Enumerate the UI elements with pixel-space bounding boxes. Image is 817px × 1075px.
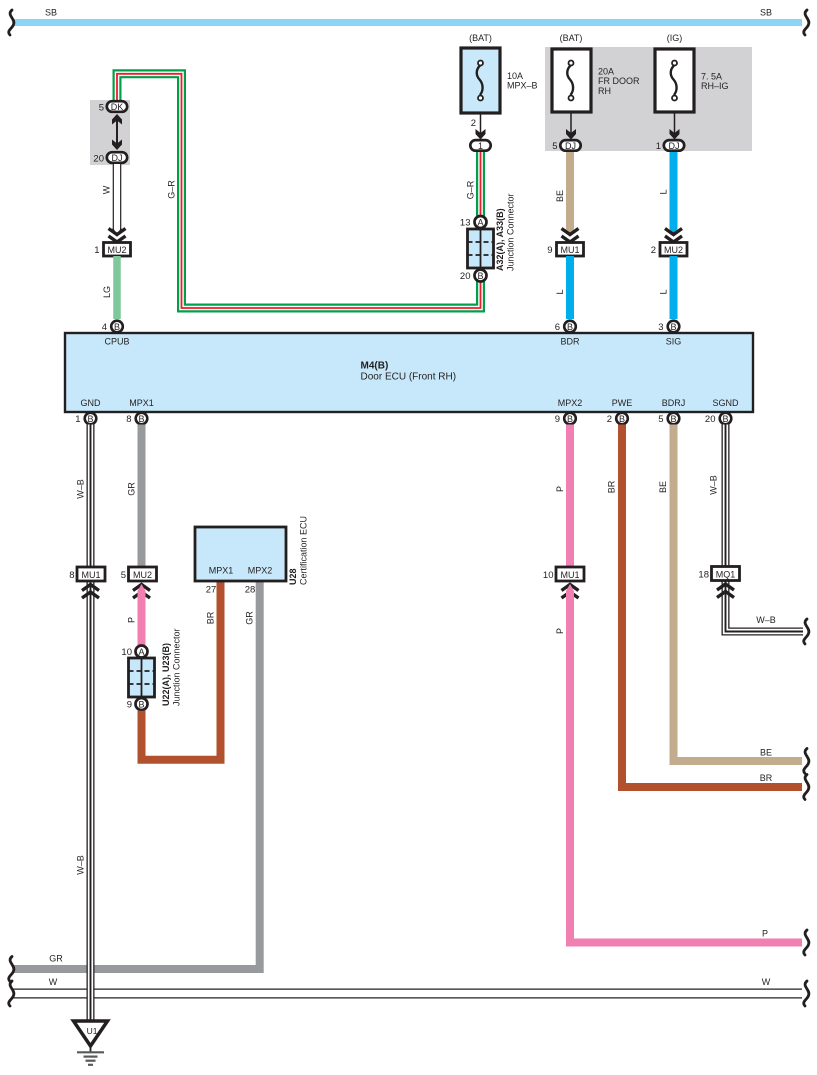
break BR right <box>804 775 809 800</box>
svg-text:20: 20 <box>93 154 104 165</box>
svg-text:W: W <box>102 185 112 194</box>
svg-text:SB: SB <box>45 8 57 18</box>
junction connector A32(A), A33(B) body <box>468 229 494 268</box>
svg-text:B: B <box>138 699 144 709</box>
svg-text:DJ: DJ <box>565 141 576 151</box>
svg-text:B: B <box>567 414 573 424</box>
svg-text:BE: BE <box>658 481 668 493</box>
break GR left <box>9 957 14 982</box>
svg-text:B: B <box>477 271 483 281</box>
arrow to DJ <box>670 129 680 140</box>
svg-text:W–B: W–B <box>76 479 86 499</box>
arrow to connector 1 <box>476 129 486 140</box>
fuse 7.5A RH-IG <box>655 49 694 112</box>
svg-text:5: 5 <box>552 141 557 152</box>
svg-text:28: 28 <box>245 585 256 596</box>
svg-text:B: B <box>722 414 728 424</box>
svg-text:GR: GR <box>245 611 255 625</box>
svg-text:P: P <box>555 628 565 634</box>
connector MU2 (1) <box>104 243 131 257</box>
svg-text:PWE: PWE <box>612 398 633 408</box>
svg-text:MPX–B: MPX–B <box>507 81 538 91</box>
svg-text:L: L <box>659 289 669 294</box>
svg-text:1: 1 <box>94 245 99 256</box>
pin BDR 6(B) <box>564 321 576 333</box>
svg-text:MPX2: MPX2 <box>248 566 273 576</box>
gray panel (fuse block BAT/IG) <box>545 47 752 151</box>
break W-B right <box>804 619 809 644</box>
svg-text:GR: GR <box>49 954 63 964</box>
wire W-B (SGND to right break) <box>726 425 804 632</box>
wire P (MU1 to right break) <box>566 584 574 591</box>
break SB left <box>9 10 14 35</box>
wire SB <box>13 19 802 26</box>
wire W-B (GND to ground) <box>87 425 95 1022</box>
svg-text:6: 6 <box>555 322 560 333</box>
svg-text:5: 5 <box>121 570 126 581</box>
svg-text:SB: SB <box>760 8 772 18</box>
wire fuse2 to DJ <box>570 112 572 134</box>
svg-text:18: 18 <box>698 570 709 581</box>
svg-text:MPX1: MPX1 <box>129 398 154 408</box>
svg-text:1: 1 <box>656 141 661 152</box>
svg-text:8: 8 <box>126 414 131 425</box>
connector MU2 (2) <box>660 243 687 257</box>
wire L (MU2 to SIG) <box>670 256 678 319</box>
svg-text:BDR: BDR <box>560 337 580 347</box>
svg-text:W: W <box>49 977 58 987</box>
svg-text:2: 2 <box>607 414 612 425</box>
svg-text:B: B <box>670 414 676 424</box>
connector MU1 (8) <box>77 567 105 581</box>
wire BE (BDRJ to right break) <box>674 425 803 762</box>
svg-text:BE: BE <box>760 748 772 758</box>
wire LG <box>113 256 121 319</box>
svg-text:BR: BR <box>607 480 617 493</box>
svg-text:DJ: DJ <box>669 141 680 151</box>
break W right <box>804 981 809 1006</box>
junction connector pin B (9) <box>136 698 148 710</box>
pin CPUB 4(B) <box>111 321 123 333</box>
svg-text:BDRJ: BDRJ <box>662 398 686 408</box>
svg-text:FR DOOR: FR DOOR <box>598 76 640 86</box>
svg-text:A: A <box>477 217 483 227</box>
svg-text:MU2: MU2 <box>664 245 683 255</box>
fuse 10A MPX-B <box>461 48 500 113</box>
wire fuse1 to connector 1 <box>480 113 482 134</box>
svg-text:U1: U1 <box>87 1026 98 1036</box>
svg-text:3: 3 <box>658 322 663 333</box>
svg-text:7. 5A: 7. 5A <box>701 71 722 81</box>
wire W-B over crossings (redraw) <box>87 950 95 1021</box>
svg-text:GND: GND <box>81 398 102 408</box>
svg-text:MPX1: MPX1 <box>209 566 234 576</box>
svg-text:4: 4 <box>102 322 107 333</box>
svg-text:U22(A), U23(B): U22(A), U23(B) <box>161 643 171 706</box>
wire GR (MPX1 to MU2) <box>138 425 146 568</box>
wire GR (U28 MPX2 down-left) <box>13 581 260 969</box>
wire fuse3 to DJ <box>674 112 676 134</box>
fuse 20A FR DOOR RH <box>552 49 591 112</box>
svg-text:DJ: DJ <box>112 153 123 163</box>
svg-text:Door ECU (Front RH): Door ECU (Front RH) <box>361 372 457 383</box>
svg-text:G–R: G–R <box>167 180 177 199</box>
connector MQ1 (18) <box>712 567 740 581</box>
connector oval DJ (5) <box>560 140 580 151</box>
svg-text:MU1: MU1 <box>81 570 100 580</box>
svg-text:GR: GR <box>127 482 137 496</box>
svg-text:B: B <box>87 414 93 424</box>
connector oval DK (5) <box>107 101 127 112</box>
svg-text:BR: BR <box>760 773 773 783</box>
svg-text:P: P <box>127 617 137 623</box>
svg-text:B: B <box>114 322 120 332</box>
svg-text:MU2: MU2 <box>107 245 126 255</box>
svg-text:G–R: G–R <box>466 180 476 199</box>
svg-text:M4(B): M4(B) <box>361 361 389 372</box>
svg-text:9: 9 <box>127 700 132 711</box>
wire BR (junction B to U28 MPX1) <box>142 581 221 760</box>
svg-text:MQ1: MQ1 <box>716 569 736 579</box>
svg-text:SIG: SIG <box>666 337 682 347</box>
gray panel (DK/DJ relay block) <box>90 100 130 165</box>
svg-text:W–B: W–B <box>76 855 86 875</box>
svg-text:BR: BR <box>206 611 216 624</box>
connector oval DJ (1) <box>664 140 684 151</box>
break SB right <box>804 10 809 35</box>
arrow to DJ <box>566 129 576 140</box>
wire G-R (fuse MPX-B to junction A) <box>476 150 485 217</box>
svg-text:MU2: MU2 <box>133 570 152 580</box>
junction connector pin A (10) <box>136 646 148 658</box>
svg-text:(IG): (IG) <box>667 33 683 43</box>
svg-text:A32(A), A33(B): A32(A), A33(B) <box>495 208 505 271</box>
svg-text:1: 1 <box>75 414 80 425</box>
svg-text:Junction Connector: Junction Connector <box>506 193 516 271</box>
break BE right <box>804 749 809 774</box>
connector oval DJ (20) <box>107 152 127 163</box>
connector MU1 (10) <box>556 567 584 581</box>
svg-text:L: L <box>659 189 669 194</box>
connector MU1 (9) <box>557 243 584 257</box>
wire G-R (junction B to DK) <box>117 74 481 308</box>
svg-text:MU1: MU1 <box>560 245 579 255</box>
svg-text:W: W <box>762 977 771 987</box>
svg-text:10: 10 <box>121 647 132 658</box>
svg-text:2: 2 <box>471 118 476 129</box>
svg-text:A: A <box>138 647 144 657</box>
connector oval 1 <box>470 140 490 151</box>
svg-text:2: 2 <box>651 245 656 256</box>
wire L (DJ1 to MU2) <box>670 152 678 229</box>
chevrons above MU1 <box>562 229 579 235</box>
svg-text:(BAT): (BAT) <box>560 33 583 43</box>
wire W arrow tip <box>113 229 121 237</box>
svg-text:CPUB: CPUB <box>104 337 129 347</box>
svg-text:5: 5 <box>658 414 663 425</box>
svg-text:1: 1 <box>478 141 483 151</box>
svg-text:20: 20 <box>705 414 716 425</box>
svg-text:MPX2: MPX2 <box>558 398 583 408</box>
wire L (MU1 to BDR) <box>566 256 574 319</box>
svg-text:20A: 20A <box>598 67 614 77</box>
svg-text:P: P <box>555 486 565 492</box>
svg-text:DK: DK <box>111 102 124 112</box>
svg-text:SGND: SGND <box>712 398 739 408</box>
svg-text:27: 27 <box>206 585 217 596</box>
svg-text:13: 13 <box>460 218 471 229</box>
svg-text:P: P <box>762 929 768 939</box>
svg-text:5: 5 <box>99 103 104 114</box>
svg-text:10A: 10A <box>507 71 523 81</box>
svg-text:8: 8 <box>69 570 74 581</box>
svg-text:20: 20 <box>460 271 471 282</box>
break P right <box>804 930 809 955</box>
wire P (MPX2 to MU1) <box>566 425 574 568</box>
svg-text:B: B <box>138 414 144 424</box>
svg-text:B: B <box>619 414 625 424</box>
svg-text:LG: LG <box>102 286 112 298</box>
ECU box M4(B) <box>65 333 753 412</box>
wire W (DJ to MU2) <box>113 164 122 231</box>
svg-text:MU1: MU1 <box>560 570 579 580</box>
wire BR (PWE to right break) <box>622 425 802 788</box>
svg-text:U28: U28 <box>288 568 298 585</box>
svg-text:9: 9 <box>555 414 560 425</box>
svg-text:Junction Connector: Junction Connector <box>172 628 182 706</box>
svg-text:10: 10 <box>543 570 554 581</box>
chevrons above MU2 <box>665 229 682 235</box>
ground U1 <box>74 1021 108 1046</box>
chevrons above MU2 <box>109 229 126 235</box>
wire P (MU2 to junction A) <box>138 584 146 591</box>
svg-text:W–B: W–B <box>709 475 719 495</box>
break W left <box>9 981 14 1006</box>
svg-text:L: L <box>555 289 565 294</box>
junction connector pin A (13) <box>475 216 487 228</box>
connector MU2 (5) <box>129 567 157 581</box>
svg-text:RH: RH <box>598 86 611 96</box>
wire W horizontal <box>13 989 802 999</box>
svg-text:(BAT): (BAT) <box>469 33 492 43</box>
svg-text:9: 9 <box>547 245 552 256</box>
svg-text:Certification ECU: Certification ECU <box>299 516 309 585</box>
svg-text:RH–IG: RH–IG <box>701 81 729 91</box>
ECU box U28 <box>195 527 286 581</box>
double arrow DK-DJ <box>116 116 118 148</box>
svg-text:B: B <box>567 322 573 332</box>
pin SIG 3(B) <box>668 321 680 333</box>
junction connector pin B (20) <box>475 270 487 282</box>
wire BE (DJ5 to MU1) <box>566 152 574 229</box>
junction connector U22(A), U23(B) body <box>129 658 155 697</box>
svg-text:BE: BE <box>555 190 565 202</box>
svg-text:W–B: W–B <box>756 615 776 625</box>
svg-text:B: B <box>670 322 676 332</box>
